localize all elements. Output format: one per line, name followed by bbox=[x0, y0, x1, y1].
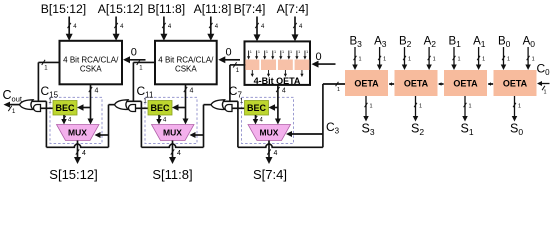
svg-text:1: 1 bbox=[306, 50, 308, 54]
svg-text:4: 4 bbox=[177, 150, 181, 157]
svg-text:1: 1 bbox=[408, 57, 411, 63]
svg-text:1: 1 bbox=[359, 57, 362, 63]
svg-text:MUX: MUX bbox=[68, 128, 87, 138]
svg-text:4: 4 bbox=[82, 150, 86, 157]
svg-text:BEC: BEC bbox=[55, 103, 75, 113]
svg-text:1: 1 bbox=[298, 50, 300, 54]
svg-text:1: 1 bbox=[482, 57, 485, 63]
svg-text:OETA: OETA bbox=[354, 79, 379, 89]
svg-text:1: 1 bbox=[543, 90, 546, 96]
svg-text:1: 1 bbox=[458, 57, 461, 63]
svg-text:4 Bit RCA/CLA/: 4 Bit RCA/CLA/ bbox=[158, 56, 214, 65]
svg-text:0: 0 bbox=[225, 47, 231, 59]
svg-text:0: 0 bbox=[131, 47, 137, 59]
svg-text:1: 1 bbox=[419, 104, 422, 110]
svg-text:1: 1 bbox=[370, 104, 373, 110]
svg-text:1: 1 bbox=[258, 50, 260, 54]
svg-text:1: 1 bbox=[532, 57, 535, 63]
svg-text:A[7:4]: A[7:4] bbox=[277, 2, 309, 16]
svg-text:OETA: OETA bbox=[453, 79, 478, 89]
svg-text:MUX: MUX bbox=[260, 128, 279, 138]
svg-text:S[15:12]: S[15:12] bbox=[49, 167, 97, 182]
svg-text:CSKA: CSKA bbox=[175, 65, 197, 74]
svg-text:S[11:8]: S[11:8] bbox=[152, 167, 192, 182]
svg-text:B[11:8]: B[11:8] bbox=[147, 2, 185, 16]
svg-text:4: 4 bbox=[95, 88, 99, 95]
svg-text:1: 1 bbox=[433, 57, 436, 63]
svg-text:OETA: OETA bbox=[404, 79, 429, 89]
svg-text:1: 1 bbox=[518, 104, 521, 110]
svg-text:A[11:8]: A[11:8] bbox=[194, 2, 232, 16]
svg-text:A[15:12]: A[15:12] bbox=[98, 2, 143, 16]
svg-text:1: 1 bbox=[282, 50, 284, 54]
svg-text:S[7:4]: S[7:4] bbox=[253, 167, 287, 182]
svg-text:B[15:12]: B[15:12] bbox=[41, 2, 86, 16]
svg-text:1: 1 bbox=[250, 50, 252, 54]
svg-text:1: 1 bbox=[290, 50, 292, 54]
svg-text:OETA: OETA bbox=[503, 79, 528, 89]
svg-text:B[7:4]: B[7:4] bbox=[234, 2, 266, 16]
svg-text:1: 1 bbox=[469, 104, 472, 110]
svg-text:4: 4 bbox=[190, 88, 194, 95]
svg-text:4: 4 bbox=[274, 150, 278, 157]
svg-text:MUX: MUX bbox=[163, 128, 182, 138]
svg-text:CSKA: CSKA bbox=[80, 65, 102, 74]
svg-text:1: 1 bbox=[383, 57, 386, 63]
svg-text:4: 4 bbox=[282, 88, 286, 95]
svg-text:4 Bit RCA/CLA/: 4 Bit RCA/CLA/ bbox=[63, 56, 119, 65]
svg-text:1: 1 bbox=[337, 87, 340, 93]
svg-text:1: 1 bbox=[274, 50, 276, 54]
svg-text:BEC: BEC bbox=[247, 103, 267, 113]
svg-text:1: 1 bbox=[507, 57, 510, 63]
svg-text:1: 1 bbox=[266, 50, 268, 54]
svg-text:BEC: BEC bbox=[150, 103, 170, 113]
svg-text:0: 0 bbox=[316, 51, 322, 63]
